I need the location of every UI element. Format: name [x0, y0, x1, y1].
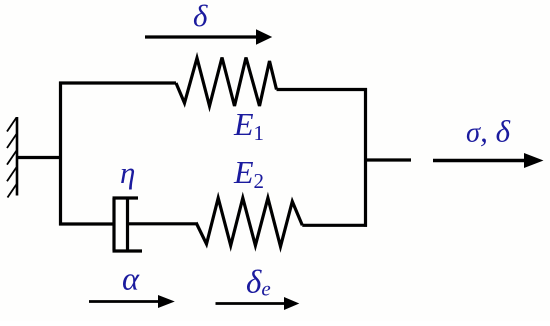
wire: right output stub — [366, 158, 412, 161]
svg-text:σ, δ: σ, δ — [466, 114, 511, 149]
fixed wall line — [16, 117, 19, 196]
wall hatch 4 — [7, 167, 17, 181]
dashpot cylinder left wall — [112, 198, 115, 251]
svg-text:δe: δe — [246, 265, 271, 301]
wire: bottom branch left — [59, 222, 114, 225]
dashpot piston — [126, 198, 129, 251]
wall hatch 1 — [7, 118, 17, 132]
dashpot cylinder top — [113, 196, 139, 199]
svg-text:η: η — [120, 155, 135, 190]
spring E1 — [176, 58, 277, 107]
wire: top branch left — [59, 81, 176, 84]
arrow alpha (bottom left) — [89, 295, 175, 308]
svg-text:δ: δ — [193, 0, 208, 33]
wire: bottom branch right — [302, 224, 367, 227]
arrow sigma-delta (right) — [433, 153, 544, 168]
wire: dashpot rod to spring E2 — [128, 222, 197, 225]
svg-text:E1: E1 — [233, 106, 264, 145]
arrow delta (top) — [145, 29, 272, 45]
node: right junction bar — [364, 88, 367, 227]
dashpot cylinder bottom — [113, 249, 143, 252]
svg-text:α: α — [122, 262, 140, 298]
svg-text:E2: E2 — [233, 154, 264, 193]
wall hatch 5 — [8, 184, 18, 198]
wall hatch 3 — [7, 151, 17, 165]
node: left junction bar — [59, 82, 62, 226]
spring E2 — [196, 198, 302, 247]
wall hatch 2 — [7, 134, 17, 148]
wire: wall to left bar — [17, 156, 62, 159]
arrow delta-e (bottom) — [216, 297, 300, 310]
wire: top branch right — [277, 88, 368, 91]
